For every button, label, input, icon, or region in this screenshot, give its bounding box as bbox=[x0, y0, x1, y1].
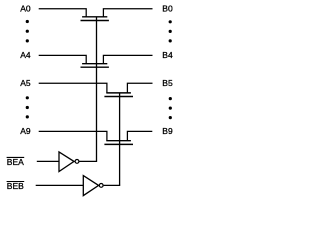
node B9 bbox=[162, 126, 173, 136]
transistor Q1 channel bar bbox=[82, 16, 107, 18]
svg-text:A5: A5 bbox=[20, 78, 31, 88]
wire A5 to transistor Q3 source bbox=[39, 83, 107, 93]
inverter U1 triangle bbox=[59, 152, 74, 172]
transistor Q2 channel bar bbox=[82, 63, 107, 65]
wire transistor Q4 drain to B9 bbox=[127, 131, 152, 140]
inverter U2 triangle bbox=[83, 176, 98, 196]
transistor Q3 channel bar bbox=[106, 92, 131, 94]
wire transistor Q1 drain to B0 bbox=[103, 9, 152, 17]
wire A4 to transistor Q2 source bbox=[39, 55, 86, 63]
transistor Q2 gate bar bbox=[81, 66, 109, 68]
svg-text:BEA: BEA bbox=[7, 157, 24, 167]
svg-text:BEB: BEB bbox=[7, 181, 24, 191]
wire BEB to inverter U2 input bbox=[36, 184, 84, 186]
svg-text:A0: A0 bbox=[20, 3, 31, 13]
node B5 bbox=[162, 78, 173, 88]
ellipsis dots between B5 and B9 bbox=[169, 97, 172, 119]
transistor Q4 channel bar bbox=[106, 140, 131, 142]
node A9 bbox=[20, 126, 31, 136]
inverter U2 output bubble bbox=[99, 184, 103, 188]
transistor Q1 gate bar bbox=[81, 20, 109, 22]
wire A0 to transistor Q1 source bbox=[39, 9, 86, 17]
node B0 bbox=[162, 3, 173, 13]
inverter U1 output bubble bbox=[75, 160, 79, 164]
ellipsis dots between A5 and A9 bbox=[26, 96, 29, 118]
svg-text:B4: B4 bbox=[162, 50, 173, 60]
ellipsis dots between A0 and A4 bbox=[26, 20, 29, 43]
wire inverter U2 output bbox=[104, 184, 121, 186]
transistor Q4 gate bar bbox=[104, 143, 133, 145]
wire gate bus Q1-Q2 to inverter U1 output bbox=[96, 17, 98, 162]
svg-text:A4: A4 bbox=[20, 50, 31, 60]
transistor Q3 gate bar bbox=[104, 96, 133, 98]
wire transistor Q3 drain to B5 bbox=[127, 83, 152, 93]
ellipsis dots between B0 and B4 bbox=[169, 20, 172, 42]
node A5 bbox=[20, 78, 31, 88]
svg-text:B9: B9 bbox=[162, 126, 173, 136]
wire inverter U1 output bbox=[79, 160, 97, 162]
svg-text:A9: A9 bbox=[20, 126, 31, 136]
node A0 bbox=[20, 3, 31, 13]
svg-text:B5: B5 bbox=[162, 78, 173, 88]
wire transistor Q2 drain to B4 bbox=[103, 55, 152, 63]
wire gate bus Q3-Q4 to inverter U2 output bbox=[119, 93, 121, 185]
net label BEA (active low) bbox=[7, 157, 25, 167]
node A4 bbox=[20, 50, 31, 60]
net label BEB (active low) bbox=[7, 181, 25, 191]
node B4 bbox=[162, 50, 173, 60]
wire BEA to inverter U1 input bbox=[37, 160, 59, 162]
wire A9 to transistor Q4 source bbox=[39, 131, 107, 140]
svg-text:B0: B0 bbox=[162, 3, 173, 13]
